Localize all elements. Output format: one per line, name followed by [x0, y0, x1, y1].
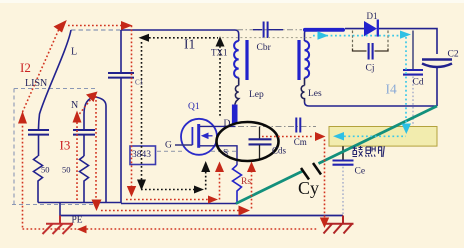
svg-text:Cbr: Cbr [257, 43, 272, 53]
capacitor Cm [296, 118, 300, 133]
wire Cbr dash-dot link [237, 29, 302, 31]
loop I2 red dotted left vertical [22, 116, 24, 228]
transistor Q1 MOSFET [181, 119, 217, 155]
svg-text:I3: I3 [60, 138, 71, 153]
svg-text:I1: I1 [184, 37, 195, 52]
capacitor Cds top lead [259, 127, 261, 139]
loop red dotted rise to Cds [251, 168, 253, 209]
label heatsink hanzi [353, 146, 385, 157]
resistor 50 (N branch) [80, 156, 89, 203]
capacitor Cd [403, 70, 423, 75]
capacitor Ce top lead [342, 146, 344, 160]
svg-text:Les: Les [308, 89, 322, 99]
capacitor C1 [108, 73, 134, 78]
resistor Rs [233, 165, 242, 204]
loop red dotted mid horizontal [126, 199, 211, 201]
loop I1 black dotted C1 drop [141, 42, 143, 183]
capacitor LISN L-branch [28, 130, 49, 135]
wire N line arc [84, 97, 106, 203]
loop red dotted earth return [23, 228, 319, 230]
svg-text:TX1: TX1 [211, 48, 228, 58]
wire heatsink teal line upper [319, 106, 438, 164]
wire dash-dot drain node [238, 126, 316, 128]
wire secondary bottom [305, 102, 438, 106]
svg-text:50: 50 [41, 165, 50, 175]
wire bold secondary top lead [303, 28, 345, 32]
svg-text:D: D [224, 119, 231, 129]
capacitor Cd dotted lead [412, 77, 414, 127]
red arrows [18, 20, 329, 233]
svg-text:50: 50 [62, 165, 71, 175]
loop I2 red dotted C1 drop [131, 26, 133, 189]
svg-text:S: S [223, 149, 228, 159]
wire bottom return rail [38, 202, 121, 204]
svg-text:Lep: Lep [249, 90, 264, 100]
transformer TX1 primary winding [234, 41, 239, 78]
resistor 50 (L branch) [34, 156, 43, 203]
diode D1 [364, 20, 378, 37]
svg-text:PE: PE [72, 216, 83, 226]
black arrows [137, 34, 225, 194]
wire bottom rail to Rs node [121, 203, 237, 205]
svg-text:Q1: Q1 [188, 102, 200, 112]
wire L line curve [39, 30, 72, 130]
capacitor Cj bracket leads [353, 49, 389, 52]
capacitor Cbr [264, 22, 268, 39]
transformer TX1 core bar secondary [297, 40, 300, 80]
wire source tap [200, 146, 237, 165]
wire dashed gate link [157, 150, 183, 152]
highlight ellipse around Cds [217, 122, 279, 161]
loop I1 black dotted top [145, 37, 218, 39]
loop red dotted heatsink drop [324, 140, 326, 220]
svg-text:Cj: Cj [366, 64, 375, 74]
svg-text:I2: I2 [20, 60, 31, 75]
LISN boundary dashed box [12, 89, 96, 205]
capacitor C1 leads [120, 30, 122, 203]
heatsink yellow box [329, 127, 437, 147]
loop red dotted rise to S [219, 168, 221, 200]
ground chassis right [324, 216, 354, 234]
wire output [379, 29, 437, 54]
capacitor Cj [369, 43, 373, 60]
capacitor Cj dashed bracket [353, 31, 389, 49]
svg-text:N: N [71, 100, 78, 111]
wire mains dashed stub [71, 29, 121, 31]
loop I4 cyan dotted top [313, 35, 399, 37]
loop I3 red dotted N drop [95, 96, 97, 201]
wire bold drain lead [232, 105, 238, 125]
svg-text:Cm: Cm [294, 137, 307, 147]
ground PE [43, 216, 74, 235]
wire secondary top [305, 30, 309, 41]
wire heatsink teal line lower [236, 171, 303, 204]
svg-text:G: G [165, 141, 172, 151]
inductor Lep leakage [235, 78, 239, 105]
capacitor C2 bottom lead [436, 68, 438, 107]
capacitor Cds [249, 139, 272, 144]
svg-text:Cds: Cds [272, 146, 287, 156]
wire to diode [345, 28, 364, 30]
svg-text:Cd: Cd [413, 78, 424, 88]
loop I2 red dotted diagonal [23, 25, 62, 113]
loop I3 red dotted N rise [77, 97, 93, 201]
svg-text:Ce: Ce [355, 167, 366, 177]
loop I4 cyan dotted heatsink [344, 135, 406, 137]
cyan arrows [318, 31, 412, 141]
svg-text:I4: I4 [386, 82, 397, 97]
wire Cbr solid leads [253, 29, 283, 31]
IC U1 PWM 3843 box [130, 146, 156, 165]
loop I4 cyan dotted drop [405, 37, 407, 126]
wire top rail [121, 30, 239, 41]
svg-text:C1: C1 [135, 79, 144, 87]
svg-text:C2: C2 [448, 50, 459, 60]
loop I1 black dotted rise [205, 170, 207, 190]
svg-text:LISN: LISN [25, 78, 47, 89]
capacitor Ce dotted lead [342, 167, 344, 216]
capacitor LISN N-branch [73, 130, 95, 135]
wire gate [175, 144, 192, 146]
loop I2 red dotted top [68, 25, 124, 27]
inductor Les leakage [301, 78, 304, 102]
wire drain tap [200, 125, 236, 127]
capacitor C2 electrolytic [422, 60, 452, 68]
capacitor Ce [333, 161, 354, 165]
capacitor Cd top lead [412, 31, 414, 70]
svg-text:L: L [71, 47, 77, 58]
loop I1 black dotted bottom [141, 189, 196, 191]
svg-text:D1: D1 [367, 11, 378, 21]
svg-text:Rs: Rs [241, 177, 251, 187]
loop red dotted lower horizontal [101, 210, 239, 212]
wire L-branch lead [38, 135, 40, 156]
wire dashed guide [222, 37, 313, 39]
wire dashed source link [211, 150, 239, 152]
capacitor Cds bottom lead [259, 145, 261, 160]
wire earth rail [60, 215, 343, 217]
wire N-branch lead [83, 135, 85, 156]
loop red dotted Cm horizontal [262, 136, 314, 138]
loop I1 black dotted TX1 drop [219, 46, 221, 117]
transformer TX1 secondary winding [305, 41, 310, 78]
transformer TX1 core bar primary [245, 40, 248, 80]
capacitor Cy plates [301, 163, 321, 180]
svg-text:Cy: Cy [298, 178, 319, 198]
wire PE drop [59, 203, 61, 216]
